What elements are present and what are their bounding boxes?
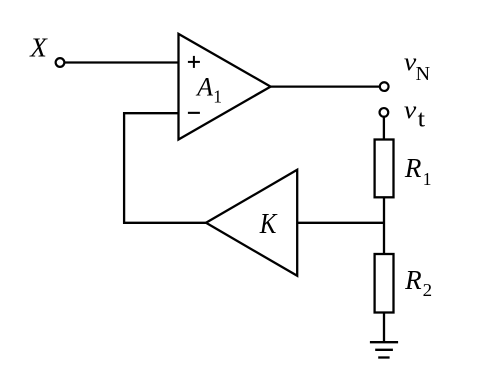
node X terminal: [56, 58, 65, 67]
A1 minus pin marking: [188, 112, 200, 114]
ground: [370, 342, 398, 357]
op-amp A1: [179, 34, 271, 140]
resistor R2: [375, 254, 394, 313]
A1 plus pin marking: [188, 56, 200, 68]
svg-text:N: N: [416, 63, 430, 85]
wire R2 to ground: [383, 313, 385, 343]
svg-text:X: X: [29, 32, 48, 62]
wire A1 output to vN: [271, 85, 380, 87]
wire vt to R1: [383, 117, 385, 140]
svg-text:2: 2: [423, 280, 433, 300]
wire feedback vertical: [123, 112, 125, 224]
svg-text:R: R: [404, 153, 422, 183]
svg-text:K: K: [259, 209, 278, 240]
wire R1 to R2 through junction: [383, 197, 385, 254]
wire feedback to K output: [123, 222, 206, 224]
resistor R1: [375, 140, 394, 198]
svg-text:1: 1: [213, 86, 222, 106]
amplifier K: [206, 170, 297, 276]
svg-text:v: v: [404, 97, 417, 124]
node vN terminal: [380, 82, 389, 91]
svg-text:1: 1: [423, 169, 432, 189]
wire K input from R1 R2 junction: [297, 222, 385, 224]
svg-text:A: A: [195, 72, 213, 101]
wire feedback horizontal from A1 minus input: [123, 112, 179, 114]
wire X to A1 + input: [64, 61, 178, 63]
node vt terminal: [380, 108, 389, 117]
svg-text:R: R: [404, 265, 422, 295]
svg-text:t: t: [418, 107, 426, 133]
